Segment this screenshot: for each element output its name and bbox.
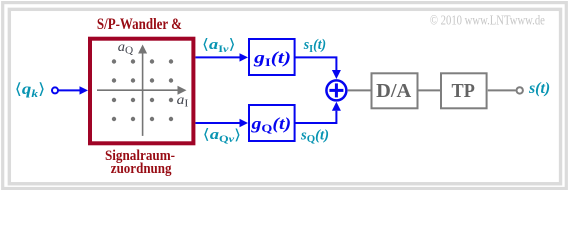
svg-text:sQ(t): sQ(t) — [300, 127, 329, 145]
svg-text:s(t): s(t) — [528, 80, 550, 97]
svg-text:© 2010 www.LNTwww.de: © 2010 www.LNTwww.de — [430, 12, 545, 28]
svg-text:D/A: D/A — [376, 80, 412, 102]
block g_Q(t) — [249, 105, 295, 141]
wire s_Q(t) from g_Q to adder — [295, 111, 337, 123]
svg-text:gI(t): gI(t) — [253, 49, 291, 69]
wire TP to output terminal — [488, 89, 516, 91]
wire input arrow into S/P box — [58, 89, 80, 91]
wire D/A to TP — [419, 89, 441, 91]
axis a_Q (vertical) — [142, 52, 144, 136]
outer frame — [3, 3, 567, 189]
block TP — [441, 73, 487, 108]
svg-text:zuordnung: zuordnung — [111, 160, 172, 177]
wire a_Q,nu arrow to g_Q box — [196, 122, 241, 124]
node q_k input terminal — [52, 87, 58, 93]
svg-text:TP: TP — [452, 80, 476, 102]
wire a_I,nu arrow to g_I box — [196, 56, 241, 58]
svg-text:S/P-Wandler &: S/P-Wandler & — [97, 16, 182, 34]
node s(t) output terminal — [517, 87, 523, 93]
axis a_I (horizontal) — [97, 89, 178, 91]
block D/A — [372, 73, 418, 108]
svg-text:⟨aQν⟩: ⟨aQν⟩ — [203, 126, 242, 145]
block g_I(t) — [249, 39, 295, 75]
svg-text:sI(t): sI(t) — [303, 37, 326, 55]
svg-text:⟨qk⟩: ⟨qk⟩ — [15, 81, 46, 100]
wire adder to D/A — [348, 89, 371, 91]
adder — [326, 80, 346, 100]
inner frame — [9, 9, 560, 183]
block U1 S/P converter and signal space mapping box — [90, 39, 193, 144]
svg-text:⟨aIν⟩: ⟨aIν⟩ — [202, 36, 236, 55]
constellation dots 4x4 — [112, 59, 173, 121]
wire s_I(t) from g_I to adder — [295, 57, 337, 70]
